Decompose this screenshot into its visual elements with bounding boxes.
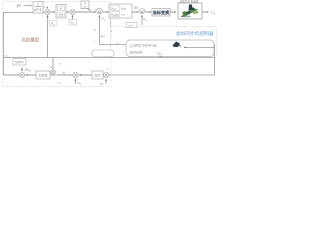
svg-text:MPPT: MPPT (15, 61, 24, 65)
svg-text:2u/U: 2u/U (128, 24, 134, 28)
svg-text:Δω: Δω (101, 34, 106, 38)
svg-text:1/sT: 1/sT (94, 74, 100, 78)
svg-text:坐标变换: 坐标变换 (153, 9, 170, 15)
svg-text:Kdωs: Kdωs (112, 12, 120, 17)
svg-text:Kp+: Kp+ (112, 6, 117, 11)
svg-text:1: 1 (37, 3, 39, 7)
svg-text:Δu: Δu (134, 6, 138, 10)
svg-text:+: + (94, 40, 96, 44)
svg-text:ω: ω (117, 41, 119, 45)
svg-text:sT+1: sT+1 (34, 8, 41, 12)
svg-text:+: + (95, 7, 97, 11)
svg-text:-: - (43, 15, 44, 19)
svg-text:虚拟同步机控制器: 虚拟同步机控制器 (176, 30, 214, 37)
svg-text:1/2Hs: 1/2Hs (39, 74, 48, 78)
svg-text:K: K (60, 7, 62, 11)
svg-text:风机模型: 风机模型 (22, 37, 40, 44)
svg-text:K/s: K/s (59, 13, 64, 17)
svg-text:双馈已步 发电机: 双馈已步 发电机 (180, 0, 199, 4)
svg-text:Δθ=∫ωdt: Δθ=∫ωdt (129, 51, 144, 55)
svg-text:+u: +u (121, 12, 125, 16)
svg-text:Ki/s: Ki/s (121, 6, 126, 11)
